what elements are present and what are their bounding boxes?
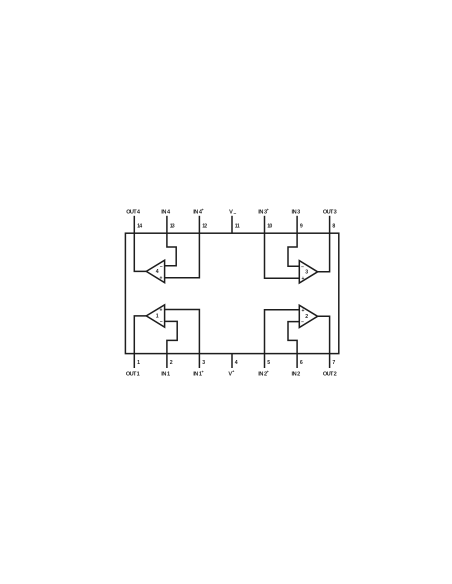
wire: pin 10 to op-amp 3 non-inverting input (265, 233, 300, 278)
wire: pin 13 to op-amp 4 inverting input (165, 233, 177, 266)
svg-text:1: 1 (137, 360, 140, 366)
op-amp U1 triangle (bottom-left, points left) (146, 305, 164, 327)
svg-text:14: 14 (137, 223, 142, 229)
svg-text:13: 13 (170, 223, 175, 229)
svg-text:OUT 1: OUT 1 (126, 371, 140, 377)
op-amp U2 triangle (bottom-right, points right) (299, 305, 317, 327)
svg-text:−: − (233, 211, 236, 217)
svg-text:4: 4 (156, 269, 159, 275)
wire: pin 12 to op-amp 4 non-inverting input (165, 233, 200, 278)
wire: pin 2 to op-amp 1 inverting input (165, 321, 178, 353)
svg-text:IN 4: IN 4 (161, 209, 171, 215)
svg-text:IN 3: IN 3 (292, 209, 301, 215)
svg-text:OUT 2: OUT 2 (323, 371, 337, 377)
wire: pin 9 to op-amp 3 inverting input (288, 233, 299, 266)
pin 11 lead (231, 216, 233, 233)
svg-text:IN 1: IN 1 (161, 371, 170, 377)
svg-text:8: 8 (332, 223, 335, 229)
pin 6 lead (296, 354, 298, 368)
wire: op-amp 4 output to pin 14 (134, 233, 147, 271)
pin 4 lead (231, 354, 233, 368)
svg-text:9: 9 (300, 223, 303, 229)
svg-text:2: 2 (170, 360, 173, 366)
svg-text:−: − (160, 264, 163, 270)
svg-text:+: + (201, 207, 204, 212)
pin 5 lead (264, 354, 266, 368)
svg-text:+: + (302, 276, 305, 282)
svg-text:−: − (301, 320, 304, 326)
wire: op-amp 2 output to pin 7 (317, 316, 330, 353)
svg-text:11: 11 (235, 223, 240, 229)
wire: pin 6 to op-amp 2 inverting input (288, 322, 299, 354)
pin 2 lead (166, 354, 168, 368)
wire: pin 5 to op-amp 2 non-inverting input (265, 310, 300, 354)
svg-text:+: + (302, 308, 305, 314)
pin 9 lead (296, 216, 298, 233)
svg-text:12: 12 (202, 223, 207, 229)
svg-text:2: 2 (305, 314, 308, 320)
wire: op-amp 3 output to pin 8 (317, 233, 330, 272)
pin 1 lead (133, 354, 135, 368)
pin 3 lead (198, 354, 200, 368)
svg-text:−: − (160, 319, 163, 325)
svg-text:IN 2: IN 2 (292, 371, 301, 377)
svg-text:+: + (267, 369, 270, 374)
wire: op-amp 1 output to pin 1 (134, 316, 147, 354)
svg-text:+: + (267, 207, 270, 212)
svg-text:OUT 4: OUT 4 (126, 209, 141, 215)
svg-text:10: 10 (267, 223, 272, 229)
svg-text:3: 3 (305, 269, 308, 275)
svg-text:5: 5 (267, 360, 270, 366)
op-amp U4 triangle (top-left, points left) (146, 260, 164, 282)
svg-text:4: 4 (235, 360, 238, 366)
pin 13 lead (166, 216, 168, 233)
svg-text:+: + (159, 308, 162, 314)
pin 8 lead (329, 216, 331, 233)
svg-text:OUT 3: OUT 3 (323, 209, 337, 215)
svg-text:+: + (159, 275, 162, 281)
IC body outline (125, 233, 338, 353)
pin 10 lead (264, 216, 266, 233)
wire: pin 3 to op-amp 1 non-inverting input (165, 310, 200, 354)
svg-text:6: 6 (300, 360, 303, 366)
svg-text:−: − (301, 264, 304, 270)
svg-text:+: + (201, 369, 204, 374)
pin 14 lead (133, 216, 135, 233)
svg-text:3: 3 (202, 360, 205, 366)
pin 7 lead (329, 354, 331, 368)
svg-text:1: 1 (156, 314, 159, 320)
svg-text:7: 7 (332, 360, 335, 366)
op-amp U3 triangle (top-right, points right) (299, 261, 317, 283)
pin 12 lead (198, 216, 200, 233)
svg-text:+: + (232, 369, 235, 374)
